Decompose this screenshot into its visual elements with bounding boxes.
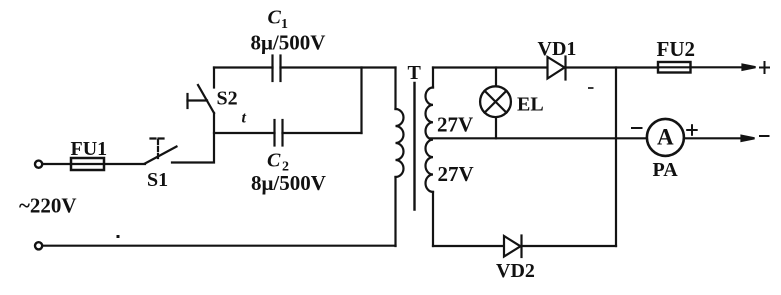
svg-text:EL: EL xyxy=(517,94,544,116)
label plus at ammeter right xyxy=(686,124,698,136)
fuse FU2 xyxy=(658,62,691,73)
svg-text:VD1: VD1 xyxy=(538,38,577,60)
ammeter PA xyxy=(647,119,684,156)
svg-text:C: C xyxy=(268,7,282,29)
svg-text:8μ/500V: 8μ/500V xyxy=(251,31,326,55)
label minus at output bottom xyxy=(759,135,770,137)
svg-text:C: C xyxy=(267,150,281,172)
arrow output plus xyxy=(743,65,756,70)
stray mark near VD1 xyxy=(588,87,594,89)
fuse FU1 xyxy=(71,158,104,170)
wire C1 to transformer primary top xyxy=(281,66,396,68)
wire input top to FU1 xyxy=(43,163,71,165)
wire junction drop to C2 right xyxy=(360,68,362,134)
lamp EL xyxy=(480,86,511,117)
svg-text:8μ/500V: 8μ/500V xyxy=(251,171,326,195)
svg-text:S2: S2 xyxy=(217,88,238,110)
transformer T core xyxy=(413,83,415,210)
transformer T primary winding xyxy=(396,68,404,247)
wire top S2 to C1 xyxy=(214,66,273,68)
wire rectifier junction vertical xyxy=(615,68,617,247)
svg-text:FU2: FU2 xyxy=(657,37,696,61)
wire bottom input to primary xyxy=(43,245,396,247)
diode VD1 xyxy=(548,57,566,80)
wire secondary top to VD1 xyxy=(433,66,548,68)
terminal input top xyxy=(35,161,42,168)
wire center tap to ammeter xyxy=(430,137,646,139)
switch S1 xyxy=(145,139,177,164)
diode VD2 xyxy=(504,236,522,258)
transformer T secondary winding with center tap xyxy=(425,68,433,247)
wire VD2 to junction vertical xyxy=(522,245,617,247)
svg-text:~220V: ~220V xyxy=(19,194,77,218)
label plus at output top xyxy=(759,61,770,74)
lamp EL branch wire bottom xyxy=(495,117,497,138)
switch S2 xyxy=(188,68,215,114)
lamp EL branch wire top xyxy=(495,68,497,87)
wire C2 to junction drop xyxy=(283,132,362,134)
svg-text:27V: 27V xyxy=(437,113,473,137)
wire FU1 to S1 xyxy=(104,163,145,165)
wire junction A to C2 xyxy=(214,132,275,134)
svg-text:A: A xyxy=(657,125,674,150)
svg-text:S1: S1 xyxy=(147,169,168,191)
svg-text:T: T xyxy=(408,62,422,84)
label minus at ammeter left xyxy=(631,127,643,129)
svg-text:FU1: FU1 xyxy=(71,138,108,160)
stray mark bottom wire xyxy=(117,235,120,238)
wire secondary bottom to VD2 xyxy=(433,245,504,247)
arrow output minus xyxy=(742,136,755,141)
wire S1 to junction A xyxy=(172,113,214,163)
terminal input bottom xyxy=(35,242,42,249)
svg-text:PA: PA xyxy=(653,159,679,181)
wire ammeter to output minus xyxy=(684,137,745,139)
capacitor C2 xyxy=(275,120,283,146)
wire FU2 to output plus xyxy=(691,66,746,68)
capacitor C1 xyxy=(273,56,281,82)
svg-text:27V: 27V xyxy=(438,162,474,186)
svg-text:VD2: VD2 xyxy=(496,260,535,282)
svg-text:t: t xyxy=(242,110,247,127)
wire VD1 to FU2 xyxy=(566,66,659,68)
